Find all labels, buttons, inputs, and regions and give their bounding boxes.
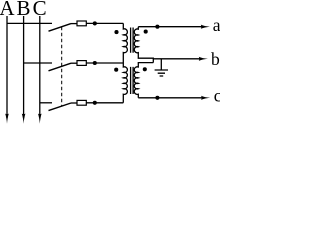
- wire branch B: [24, 62, 52, 64]
- wire: [71, 102, 77, 104]
- polarity dot W2: [114, 68, 118, 72]
- wire phase B vertical: [23, 16, 25, 118]
- wire: [86, 102, 123, 104]
- polarity dot W1: [114, 30, 118, 34]
- arrow b: [199, 57, 208, 61]
- polarity dot W3: [144, 30, 148, 34]
- primary winding W1 (transformer T1): [123, 23, 127, 63]
- ground symbol: [155, 70, 168, 76]
- arrow c: [201, 96, 210, 100]
- node dot line c: [155, 96, 159, 100]
- switch QS pole 1: [49, 24, 72, 32]
- fuse FU2: [77, 61, 86, 66]
- wire: [71, 62, 77, 64]
- secondary winding W4 (transformer T2): [134, 63, 153, 98]
- arrow phase C: [38, 114, 42, 124]
- node dot branch C: [93, 101, 97, 105]
- svg-text:b: b: [211, 49, 220, 69]
- node dot line a: [155, 25, 159, 29]
- node dot branch A: [93, 21, 97, 25]
- wire branch A: [7, 22, 52, 24]
- switch gang linkage (dashed): [61, 27, 63, 107]
- wire: [86, 22, 123, 24]
- core transformer T1: [131, 28, 134, 53]
- arrow phase A: [5, 114, 9, 124]
- ground stub wire: [160, 59, 162, 70]
- svg-text:a: a: [213, 15, 220, 35]
- arrow phase B: [22, 114, 26, 124]
- arrow a: [201, 25, 210, 29]
- node dot branch B: [93, 61, 97, 65]
- switch QS pole 3: [49, 103, 72, 111]
- wire output a: [138, 26, 202, 28]
- polarity dot W4: [143, 67, 147, 71]
- wire phase A vertical: [6, 16, 8, 118]
- fuse FU3: [77, 100, 86, 105]
- wire: [71, 23, 77, 25]
- secondary winding W3 (transformer T1): [134, 27, 153, 63]
- wire output b: [153, 58, 200, 60]
- core transformer T2: [131, 67, 134, 94]
- wire phase C vertical: [39, 16, 41, 118]
- primary winding W2 (transformer T2): [123, 63, 127, 103]
- wire output c: [138, 97, 202, 99]
- fuse FU1: [77, 21, 86, 26]
- wire: [86, 62, 123, 64]
- switch QS pole 2: [49, 63, 72, 71]
- wire branch C: [40, 102, 52, 104]
- svg-text:c: c: [214, 85, 220, 105]
- svg-text:A: A: [0, 0, 15, 20]
